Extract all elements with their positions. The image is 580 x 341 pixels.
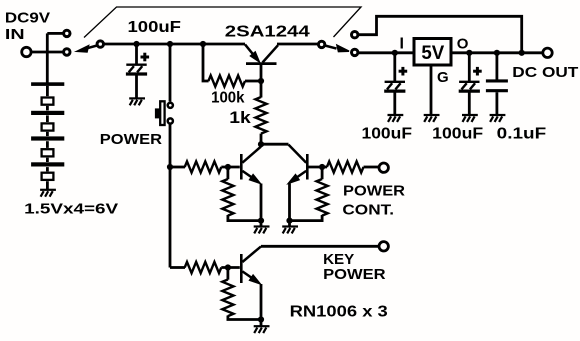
svg-text:1.5Vx4=6V: 1.5Vx4=6V: [24, 200, 118, 217]
svg-text:100k: 100k: [211, 90, 244, 107]
svg-text:RN1006 x 3: RN1006 x 3: [290, 303, 388, 320]
svg-text:0.1uF: 0.1uF: [497, 125, 547, 142]
svg-text:100uF: 100uF: [362, 125, 413, 142]
svg-text:1k: 1k: [229, 108, 251, 127]
svg-text:O: O: [457, 36, 469, 53]
svg-text:100uF: 100uF: [432, 125, 483, 142]
svg-text:I: I: [400, 36, 404, 53]
svg-text:5V: 5V: [421, 43, 444, 64]
svg-text:DC OUT: DC OUT: [512, 64, 578, 81]
svg-text:CONT.: CONT.: [342, 202, 394, 219]
svg-text:2SA1244: 2SA1244: [225, 23, 310, 40]
svg-text:POWER: POWER: [343, 183, 405, 200]
svg-text:IN: IN: [5, 26, 25, 43]
svg-text:G: G: [437, 69, 449, 86]
svg-text:POWER: POWER: [323, 266, 386, 283]
svg-text:POWER: POWER: [100, 131, 162, 148]
svg-text:DC9V: DC9V: [5, 10, 50, 27]
svg-text:100uF: 100uF: [128, 19, 182, 36]
